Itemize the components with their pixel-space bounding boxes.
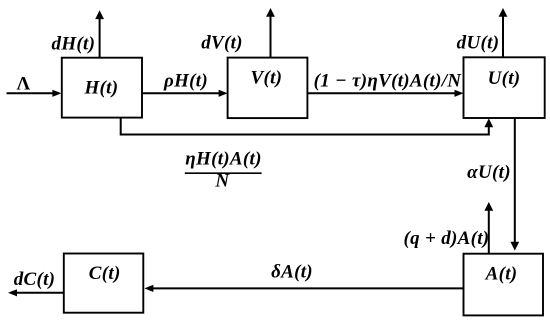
box C(t) [64, 254, 144, 313]
svg-text:C(t): C(t) [89, 263, 121, 284]
svg-text:U(t): U(t) [488, 68, 521, 89]
arrow alpha U(t) from U down to A [510, 118, 519, 251]
box V(t) [228, 58, 308, 119]
arrow (1-tau)etaV(t)A(t)/N from V to U [307, 90, 463, 97]
svg-text:V(t): V(t) [250, 68, 282, 89]
svg-text:(1 − τ)ηV(t)A(t)/N: (1 − τ)ηV(t)A(t)/N [314, 71, 463, 92]
svg-text:dV(t): dV(t) [201, 33, 243, 54]
arrow dV(t) up from V [266, 8, 275, 58]
svg-text:dU(t): dU(t) [457, 33, 500, 54]
svg-text:A(t): A(t) [485, 263, 518, 284]
svg-text:ηH(t)A(t): ηH(t)A(t) [185, 149, 261, 170]
svg-text:(q + d)A(t): (q + d)A(t) [404, 228, 490, 249]
box U(t) [464, 57, 545, 118]
svg-text:δA(t): δA(t) [271, 262, 313, 283]
svg-text:ρH(t): ρH(t) [163, 71, 208, 92]
arrow rho H(t) from H to V [142, 90, 228, 97]
svg-text:dH(t): dH(t) [52, 34, 96, 55]
svg-text:dC(t): dC(t) [14, 269, 56, 290]
svg-text:αU(t): αU(t) [467, 162, 511, 183]
arrow dU(t) up from U [499, 8, 508, 57]
svg-text:Λ: Λ [17, 74, 31, 95]
svg-text:H(t): H(t) [83, 77, 118, 98]
box A(t) [464, 254, 544, 316]
label etaH(t)A(t)/N fraction [185, 149, 262, 192]
box H(t) [62, 58, 142, 118]
arrow (q+d)A(t) up from A [484, 202, 493, 254]
arrow dH(t) up from H [95, 10, 104, 57]
arrow delta A(t) from A to C [144, 285, 463, 292]
wire feedback from H bottom to U bottom [121, 118, 494, 135]
arrow dC(t) out of C [8, 289, 64, 296]
svg-text:N: N [214, 171, 230, 192]
arrow Lambda into H [7, 90, 62, 97]
